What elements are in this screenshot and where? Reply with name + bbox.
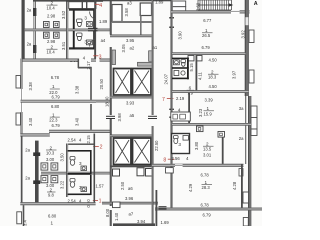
vent box row upper-right (54, 22, 60, 28)
elevator shaft 2A (114, 138, 132, 165)
svg-text:3.95: 3.95 (126, 38, 135, 43)
small box on wall (113, 202, 121, 208)
svg-text:2: 2 (100, 145, 103, 151)
svg-text:26.5: 26.5 (202, 33, 211, 38)
svg-text:1: 1 (52, 84, 55, 89)
wall between bath and room 18.3 (196, 55, 198, 93)
vent box A (197, 126, 204, 132)
svg-text:2.98: 2.98 (47, 14, 56, 19)
stair shaft right cell (140, 3, 151, 16)
svg-text:22.50: 22.50 (154, 140, 159, 151)
svg-text:6.78: 6.78 (201, 173, 210, 178)
pilaster bump 1 (16, 76, 21, 89)
wall: kitchen/bath divider vertical x66 (66, 0, 68, 59)
wall: bath left vertical x66 (66, 144, 68, 198)
wall: corridor right wall bottom x156.5 (156, 190, 158, 226)
svg-text:3: 3 (84, 15, 87, 20)
loggia bump bottom corner (243, 218, 248, 227)
svg-text:2а: 2а (27, 42, 32, 47)
vent box r1-r (51, 163, 58, 170)
svg-text:3.38: 3.38 (28, 82, 33, 91)
svg-text:4.50: 4.50 (209, 84, 218, 89)
svg-text:3.39: 3.39 (205, 97, 214, 102)
wall: building top edge over core (103, 0, 172, 1)
vent box r2-r (51, 176, 58, 183)
svg-text:3а: 3а (239, 106, 244, 111)
closet boxes below bank2 (113, 169, 120, 176)
svg-text:1: 1 (51, 220, 54, 225)
svg-text:3: 3 (79, 161, 82, 166)
bath fixtures: toilet (181, 60, 186, 63)
svg-text:6.80: 6.80 (51, 104, 60, 109)
wall: divider y123.5 (172, 123, 251, 126)
stair hatch band (198, 0, 233, 10)
door leaf mark upper (33, 8, 36, 16)
svg-text:4: 4 (99, 3, 102, 9)
svg-text:3.50: 3.50 (60, 153, 65, 162)
svg-text:3.38: 3.38 (74, 85, 79, 94)
svg-text:6.79: 6.79 (203, 213, 212, 218)
loggia bump right bottom (243, 192, 249, 203)
wall: divider y133.5 left part (20, 133, 50, 136)
svg-text:20.50: 20.50 (99, 78, 104, 89)
svg-text:24.07: 24.07 (164, 73, 169, 84)
svg-text:10.3: 10.3 (46, 150, 55, 155)
bathroom lower cell walls (69, 47, 96, 49)
vent box row lower-left (44, 32, 50, 38)
bath upper sink (81, 166, 86, 171)
svg-text:3.94: 3.94 (137, 219, 146, 224)
wall: right edge upper x245 (245, 0, 249, 96)
svg-text:3.40: 3.40 (74, 117, 79, 126)
door ticks a5 right (148, 116, 157, 117)
pilaster bump 2 (16, 113, 21, 125)
vent box r1-l (41, 163, 48, 170)
svg-text:6.78: 6.78 (51, 75, 60, 80)
notch box under divider (166, 168, 174, 173)
vent box on room wall (239, 169, 243, 177)
loggia box right mid (251, 106, 257, 118)
wall: divider y53 (172, 52, 246, 55)
bath lower toilet (70, 179, 75, 182)
stair mid wall (112, 21, 153, 23)
wall: inner vertical left of kitchens (33, 0, 36, 59)
svg-text:4.11: 4.11 (198, 71, 203, 80)
svg-text:1.89: 1.89 (99, 19, 108, 24)
bath lower sink (81, 187, 86, 192)
svg-text:6.80: 6.80 (48, 213, 57, 218)
svg-text:а2: а2 (130, 46, 135, 51)
wall: core left boundary x110 (110, 0, 112, 35)
svg-text:10.4: 10.4 (47, 5, 56, 10)
wall: divider y130 right part (49, 130, 111, 133)
svg-text:9.8: 9.8 (48, 192, 54, 197)
wall: divider y58-61 left part (21, 59, 79, 62)
window band on left wall (20, 89, 23, 112)
svg-text:3.93: 3.93 (126, 101, 135, 106)
wall below a6 (102, 202, 158, 205)
elevator shaft 1B (133, 69, 152, 96)
svg-text:2.60: 2.60 (196, 2, 201, 11)
wall: thick pylon lower (35, 141, 39, 203)
door in corridor wall (88, 28, 98, 29)
bath cell 2 right-top (187, 69, 189, 80)
svg-text:3.00: 3.00 (46, 157, 55, 162)
bath block right-bottom (172, 134, 190, 154)
pilaster right 1 (249, 30, 254, 43)
wall: bottom divider y208 (155, 208, 262, 211)
elevator lobby wall horizontal (138, 62, 153, 66)
svg-text:1.57: 1.57 (96, 184, 105, 189)
svg-text:1.89: 1.89 (155, 0, 164, 4)
door tick 2a upper (33, 152, 40, 156)
svg-text:2.19: 2.19 (176, 96, 185, 101)
balcony bottom-left (17, 212, 22, 224)
svg-text:8: 8 (163, 157, 166, 163)
svg-text:3.01: 3.01 (203, 153, 212, 158)
bathroom upper cell walls (73, 11, 75, 30)
bath fixtures: sink (174, 60, 180, 65)
svg-text:а4: а4 (101, 38, 106, 43)
wall right of room 4 (188, 93, 190, 124)
svg-text:3.05: 3.05 (121, 44, 126, 53)
svg-text:2.98: 2.98 (47, 39, 56, 44)
svg-text:2.56: 2.56 (172, 156, 181, 161)
bathroom lower: sink (86, 40, 92, 45)
door gap in right apartments wall (170, 19, 173, 27)
svg-text:5.15: 5.15 (189, 63, 194, 72)
bath block right-top: cell walls (172, 58, 189, 60)
svg-text:2.15: 2.15 (86, 135, 91, 144)
stub wall left (112, 50, 116, 65)
door ticks bottom corridor (159, 206, 167, 207)
wall: left edge bottom room (23, 205, 25, 226)
wall below bank1 (110, 96, 153, 99)
vents below divider (188, 56, 194, 61)
bath upper cell walls (68, 150, 92, 152)
bath lower cell walls (90, 175, 92, 195)
wall: divider y58-61 right stub (91, 59, 96, 62)
svg-text:3.52: 3.52 (61, 10, 66, 19)
svg-text:2.50: 2.50 (120, 181, 125, 190)
elevator shaft 2B (133, 138, 152, 165)
svg-text:28.3: 28.3 (202, 185, 211, 190)
svg-text:4.29: 4.29 (188, 183, 193, 192)
bath upper toilet (70, 157, 75, 160)
svg-text:6.77: 6.77 (203, 18, 212, 23)
svg-text:3.90: 3.90 (177, 31, 182, 40)
bathroom upper: toilet (77, 19, 82, 22)
svg-text:8.00: 8.00 (105, 208, 110, 217)
svg-text:2а: 2а (25, 176, 30, 181)
wall: left building edge y58-134 (21, 59, 23, 135)
bathroom lower: toilet (77, 33, 82, 36)
svg-text:2а: 2а (239, 136, 244, 141)
wall: below stair y10.4-13.4 (171, 10, 250, 13)
window gap right wall (245, 17, 248, 25)
wall: room boundary thin x245 (245, 96, 246, 164)
wall below bank2 (110, 166, 153, 168)
door gap right apartments wall mid (170, 110, 173, 117)
wall: left edge lower (21, 136, 23, 202)
small bath row (171, 112, 191, 121)
svg-text:6.78: 6.78 (201, 202, 210, 207)
svg-text:А: А (254, 1, 258, 7)
door leaf mark lower (33, 45, 36, 53)
bathroom lower: door arc (90, 39, 95, 46)
door ticks a5 left (106, 116, 115, 117)
wall: corridor left x94.2 top segment (94, 0, 96, 59)
closet boxes left of stair (172, 1, 185, 7)
svg-text:3.98: 3.98 (117, 113, 122, 122)
vent box B (218, 132, 225, 138)
svg-text:2а: 2а (27, 8, 32, 13)
wall below stair block (110, 35, 152, 38)
svg-text:3: 3 (178, 142, 181, 147)
svg-text:а5: а5 (130, 113, 135, 118)
svg-text:3.4: 3.4 (23, 220, 28, 226)
niche vertical wall (78, 59, 80, 69)
door tick 2a lower (33, 180, 40, 184)
stair shaft left cell (112, 5, 122, 22)
vent band below top wall (69, 2, 96, 9)
door gap in divider (175, 164, 183, 167)
svg-text:3.40: 3.40 (28, 117, 33, 126)
svg-text:2.54: 2.54 (68, 138, 77, 143)
svg-text:3.97: 3.97 (232, 70, 237, 79)
svg-text:4.50: 4.50 (209, 58, 218, 63)
wall below vent band (69, 9, 96, 11)
wall: divider y164.5 (152, 164, 244, 167)
wall: room right boundary x241.5 (241, 164, 243, 208)
svg-text:а1: а1 (153, 45, 158, 50)
wall: divider y90.5 (172, 90, 249, 93)
pilaster right 2 (249, 70, 254, 83)
svg-text:3.96: 3.96 (125, 196, 134, 201)
loggia box right mid 3 (251, 129, 257, 136)
svg-text:3.51: 3.51 (61, 41, 66, 50)
svg-text:4.28: 4.28 (232, 181, 237, 190)
wall: core right boundary x152 (152, 0, 154, 115)
svg-text:6.79: 6.79 (52, 95, 61, 100)
wall: divider y100 (21, 100, 97, 103)
bathroom upper: door arc (90, 12, 95, 19)
svg-text:3.80: 3.80 (194, 141, 199, 150)
room A right wall (90, 67, 92, 103)
svg-text:2а: 2а (25, 148, 30, 153)
stub wall right (149, 51, 152, 62)
wall: top edge above kitchen (33, 0, 68, 2)
bath mid wall (68, 173, 92, 175)
wall: top edge (66, 0, 103, 2)
wall: divider y100 corridor crossing (96, 100, 110, 103)
wall: right edge lower dark x248.5 (248, 96, 251, 226)
wall above bank2 (110, 135, 153, 138)
svg-text:10.4: 10.4 (47, 50, 56, 55)
svg-text:1: 1 (99, 199, 102, 205)
svg-text:13.5: 13.5 (203, 147, 212, 152)
niche horizontal wall (78, 67, 91, 69)
svg-text:7: 7 (162, 97, 165, 103)
wall: bottom edge band under a7 (113, 223, 155, 226)
wall: divider y58-61 corridor crossing (100, 59, 111, 62)
wall: room 13.5 right boundary (222, 137, 224, 165)
svg-text:18.3: 18.3 (208, 75, 217, 80)
svg-text:3.22: 3.22 (60, 180, 65, 189)
svg-text:1: 1 (207, 106, 210, 111)
wall: bath top y143.5 (66, 144, 95, 145)
svg-text:3.58: 3.58 (124, 8, 129, 17)
loggia box right mid 2 (251, 118, 257, 130)
bathroom upper: sink (86, 22, 92, 27)
svg-text:6.79: 6.79 (202, 45, 211, 50)
wall: right apartments left boundary x171 (171, 0, 173, 208)
elevator shaft 1A (114, 69, 132, 96)
room B right wall (90, 104, 92, 130)
svg-text:22.3: 22.3 (49, 118, 58, 123)
wall: bottom divider y202.5 (20, 202, 95, 205)
wall: left thick pylon (22, 0, 25, 59)
svg-text:1.69: 1.69 (161, 220, 170, 225)
door gap in stair wall (231, 10, 240, 13)
wall: mid divider y29 (25, 29, 112, 32)
wall: right cell stem down (140, 16, 142, 36)
wall: mid divider y172 (41, 172, 112, 175)
svg-text:1.40: 1.40 (114, 212, 119, 221)
svg-text:3.23: 3.23 (198, 108, 203, 117)
wall: corridor left lower segment (94, 134, 96, 205)
svg-text:а6: а6 (128, 186, 133, 191)
svg-text:а7: а7 (129, 212, 134, 217)
vent box r2-l (41, 176, 48, 183)
svg-text:15.9: 15.9 (204, 111, 213, 116)
svg-text:6.79: 6.79 (52, 123, 61, 128)
svg-text:4: 4 (186, 156, 189, 161)
vent box row upper-left (44, 22, 50, 28)
vent box row lower-right (54, 32, 60, 38)
